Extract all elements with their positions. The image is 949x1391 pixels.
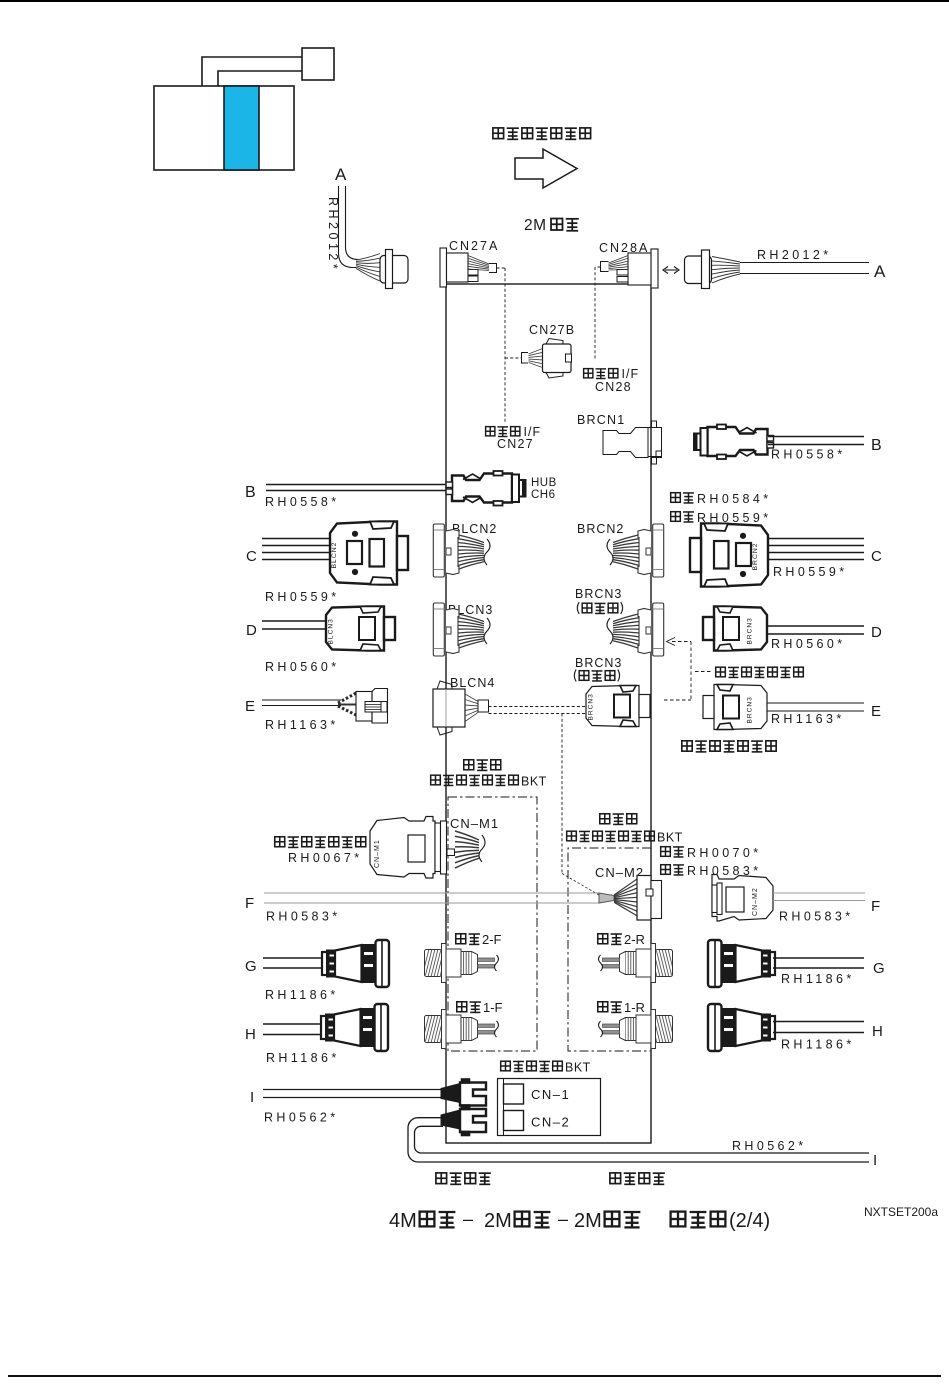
svg-text:RH0583*: RH0583* [266, 910, 341, 924]
connector BRCN2 external [690, 524, 768, 587]
wire fan into RH2012 left connector [356, 254, 380, 261]
svg-text:D: D [871, 624, 882, 641]
connector BLCN4 [433, 689, 465, 727]
connector RH1186 (H right) [708, 1004, 775, 1051]
svg-text:F: F [871, 898, 880, 915]
cable RH0559 left wires [262, 538, 331, 540]
svg-text:BRCN3: BRCN3 [588, 693, 595, 720]
svg-text:CN27A: CN27A [449, 239, 499, 253]
svg-text:2M: 2M [524, 217, 547, 234]
svg-text:BKT: BKT [565, 1061, 591, 1075]
svg-text:I: I [250, 1089, 254, 1106]
cable RH1186 left wires (H) [263, 1023, 324, 1025]
connector channel 2-F [422, 944, 499, 983]
svg-text:BLCN4: BLCN4 [450, 676, 495, 690]
connector CN-M2 panel [637, 876, 651, 921]
svg-text:CN–2: CN–2 [531, 1115, 570, 1130]
cable RH0583 right wires [773, 892, 865, 894]
CN28A mating tab [601, 262, 609, 272]
svg-text:RH0562*: RH0562* [732, 1139, 807, 1153]
cable RH0558 right wires [768, 436, 864, 438]
svg-text:D: D [246, 622, 257, 639]
svg-text:–: – [463, 1209, 473, 1229]
cable RH1186 left wires (G) [263, 957, 324, 959]
connector RH1186 (H left) [321, 1004, 388, 1051]
svg-text:A: A [874, 262, 886, 281]
2M base board outline [446, 284, 651, 1143]
connector BRCN3 external (thick) [703, 607, 767, 651]
connector CN28A [651, 249, 658, 288]
connector RH2012 (right) [685, 256, 712, 284]
connector RH1163 external (left) [338, 693, 357, 704]
callout leader lines [202, 57, 302, 86]
BLCN4 mating tab [478, 700, 489, 712]
svg-text:BRCN3: BRCN3 [747, 617, 754, 644]
svg-text:4M: 4M [389, 1210, 417, 1232]
svg-text:RH0558*: RH0558* [265, 495, 340, 509]
wire: RH2012 left bend [339, 186, 357, 268]
svg-text:–: – [558, 1209, 568, 1229]
connector BLCN3 external [326, 607, 395, 651]
wire fan CN27B [529, 349, 543, 355]
svg-text:H: H [872, 1023, 883, 1040]
label: connected at factory RH0067* [275, 837, 285, 847]
svg-text:C: C [871, 548, 882, 565]
svg-text:I/F: I/F [622, 367, 640, 381]
connector CN-M2 external [712, 875, 773, 922]
connector RH1186 (G right) [708, 940, 775, 987]
svg-text:NXTSET200a: NXTSET200a [864, 1205, 938, 1219]
mating arrow between CN28A and RH2012 [665, 269, 677, 271]
label: rear process side [610, 1173, 621, 1184]
svg-text:BRCN3: BRCN3 [575, 587, 622, 601]
label: channel 2-F [456, 934, 466, 944]
CN-1/CN-2 box [498, 1079, 601, 1136]
svg-text:C: C [246, 548, 257, 565]
svg-text:RH2012*: RH2012* [326, 197, 340, 272]
rear process BKT dash-dot box [568, 848, 651, 1051]
connector CN27A [440, 248, 447, 287]
connector HUB CH6 [452, 474, 512, 503]
connector CN-1 socket [504, 1084, 524, 1104]
svg-text:2M: 2M [574, 1210, 602, 1232]
svg-text:1-R: 1-R [624, 1000, 645, 1015]
svg-text:RH0070*: RH0070* [687, 846, 762, 860]
svg-text:BKT: BKT [521, 775, 547, 789]
CN-M2 wire neck [599, 893, 614, 903]
connector CN-M1 external [370, 817, 435, 879]
svg-text:CH6: CH6 [531, 489, 556, 501]
dashed link CN27A to I/F CN27 [497, 267, 506, 269]
front process BKT dash-dot box [448, 797, 537, 1051]
label: channel 2-R [598, 934, 608, 944]
svg-text:RH0560*: RH0560* [265, 660, 340, 674]
cable RH1186 right wires (G) [773, 957, 864, 959]
machine icon callout small box [302, 48, 334, 80]
svg-text:2-R: 2-R [624, 932, 645, 947]
svg-text:B: B [245, 484, 256, 501]
cable RH0560 left wires [262, 620, 327, 622]
connector BRCN3 cable side [586, 686, 650, 727]
CN27B mating tab [522, 353, 529, 364]
svg-text:E: E [245, 698, 255, 715]
svg-text:CN27B: CN27B [529, 323, 575, 337]
svg-text:BKT: BKT [657, 831, 683, 845]
label: channel 1-R [598, 1002, 608, 1012]
wire fan RH2012 right [712, 257, 740, 263]
svg-text:BRCN1: BRCN1 [577, 413, 625, 427]
connector channel 1-F [422, 1010, 499, 1049]
svg-text:RH0559*: RH0559* [697, 511, 772, 525]
svg-text:RH1186*: RH1186* [781, 1038, 855, 1052]
cable RH0562 wire 1 [263, 1089, 442, 1091]
connector CN-M2 wire fan [614, 879, 637, 895]
bottom rule [8, 1375, 941, 1377]
svg-text:RH1163*: RH1163* [265, 718, 339, 732]
connector CN27B body [543, 344, 572, 373]
cable RH1163 right wires [767, 702, 864, 704]
label: front process side [436, 1173, 447, 1184]
connector BLCN2 external [330, 522, 408, 585]
svg-text:BRCN2: BRCN2 [577, 522, 624, 536]
cable RH0562 wire 2 (bend to rear) [408, 1118, 869, 1162]
svg-text:CN27: CN27 [497, 437, 534, 451]
label: channel 1-F [457, 1002, 467, 1012]
svg-text:RH0559*: RH0559* [265, 590, 340, 604]
cable RH0559 right wires [768, 538, 864, 540]
label: connect to I/F CN27 [486, 427, 495, 436]
connector RH0558 male (right) [694, 425, 774, 460]
cable RH1163 left wires [262, 699, 341, 701]
svg-text:B: B [871, 437, 882, 454]
svg-text:2-F: 2-F [482, 932, 502, 947]
connector RH2012 (left) [380, 256, 408, 284]
svg-text:G: G [873, 960, 885, 977]
svg-text:BRCN3: BRCN3 [747, 696, 754, 723]
wire fan CN28A [609, 256, 629, 264]
connector RH1163 external (right) [703, 685, 767, 730]
cable RH0558 left wires [266, 484, 453, 486]
svg-text:BRCN3: BRCN3 [575, 656, 622, 670]
cable RH0560 right wires [767, 625, 864, 627]
dashed branch down to rear-process BKT [561, 714, 563, 874]
connector BRCN3 fixed panel fan [607, 603, 664, 656]
svg-text:RH0583*: RH0583* [779, 910, 854, 924]
connector CN-2 socket [504, 1111, 524, 1131]
dashed leader: connect at final process [672, 641, 691, 643]
connector channel 2-R [599, 944, 676, 983]
CN27A mating tab [489, 264, 497, 273]
svg-text:RH1186*: RH1186* [781, 972, 855, 986]
svg-text:HUB: HUB [531, 477, 557, 489]
cable RH2012 right wires [740, 262, 869, 264]
plug into CN-1 [441, 1084, 460, 1103]
dashed cable BLCN4 to BRCN3 cable side [489, 706, 587, 708]
connector RH1186 (G left) [322, 940, 389, 987]
hollow arrow [515, 149, 577, 188]
svg-text:H: H [245, 1026, 256, 1043]
dashed link to CN27B [505, 357, 522, 359]
svg-text:RH1163*: RH1163* [771, 712, 845, 726]
svg-text:RH1186*: RH1186* [265, 988, 339, 1002]
label: PCB transport direction [493, 128, 504, 139]
svg-text:1-F: 1-F [483, 1000, 503, 1015]
machine icon outer body [154, 86, 294, 170]
svg-text:CN–M2: CN–M2 [752, 887, 759, 916]
svg-text:CN–M1: CN–M1 [450, 816, 499, 831]
svg-text:A: A [335, 165, 347, 184]
svg-text:CN28: CN28 [595, 380, 632, 394]
plug into CN-2 [441, 1110, 460, 1129]
connector CN-M1 panel fan [447, 849, 455, 856]
connector BLCN3 panel fan [433, 603, 490, 656]
connector channel 1-R [599, 1010, 676, 1049]
svg-text:BLCN2: BLCN2 [331, 542, 338, 569]
svg-text:BLCN3: BLCN3 [328, 618, 335, 644]
svg-text:RH0560*: RH0560* [771, 637, 846, 651]
machine icon highlighted 2M module (cyan) [224, 86, 259, 170]
svg-text:RH0584*: RH0584* [697, 492, 772, 506]
svg-text:RH0067*: RH0067* [288, 851, 363, 865]
svg-text:RH0558*: RH0558* [771, 448, 846, 462]
svg-text:I: I [873, 1152, 877, 1169]
svg-text:RH1186*: RH1186* [266, 1051, 340, 1065]
label: connect at final process [716, 667, 726, 677]
label: disconnect RH0584* [671, 493, 681, 503]
label: PCB transport signal BKT (rear) [567, 831, 577, 841]
label: connect to I/F CN28 [584, 369, 593, 378]
svg-text:RH2012*: RH2012* [757, 248, 832, 262]
svg-text:RH0559*: RH0559* [773, 565, 848, 579]
connector BLCN2 panel fan [433, 524, 490, 577]
cable RH0583 long gray wires [264, 892, 599, 894]
label: rear process [600, 814, 610, 824]
label: PCB transport signal BKT (front) [431, 775, 441, 785]
svg-text:G: G [245, 958, 257, 975]
svg-text:RH0562*: RH0562* [264, 1111, 339, 1125]
label: cable-to-cable relay [682, 741, 692, 751]
svg-text:E: E [871, 703, 881, 720]
svg-text:CN–M1: CN–M1 [374, 839, 381, 868]
cable RH1186 right wires (H) [773, 1021, 864, 1023]
svg-text:2M: 2M [484, 1210, 512, 1232]
svg-text:(2/4): (2/4) [729, 1210, 770, 1232]
svg-text:F: F [245, 895, 254, 912]
top border bar [0, 0, 949, 2]
wire fan CN27A [468, 256, 489, 265]
label: connect RH0583* [661, 865, 671, 875]
label: front process [464, 760, 474, 770]
label: connect RH0559* [671, 512, 681, 522]
dashed link CN28A to I/F CN28 [595, 266, 601, 268]
label: circuit protector BKT [501, 1061, 511, 1071]
svg-text:BRCN2: BRCN2 [752, 542, 759, 570]
label: disconnect RH0070* [661, 847, 671, 857]
connector BRCN2 panel fan [607, 524, 664, 577]
svg-text:CN–1: CN–1 [531, 1087, 570, 1102]
connector BRCN1 [603, 428, 648, 458]
